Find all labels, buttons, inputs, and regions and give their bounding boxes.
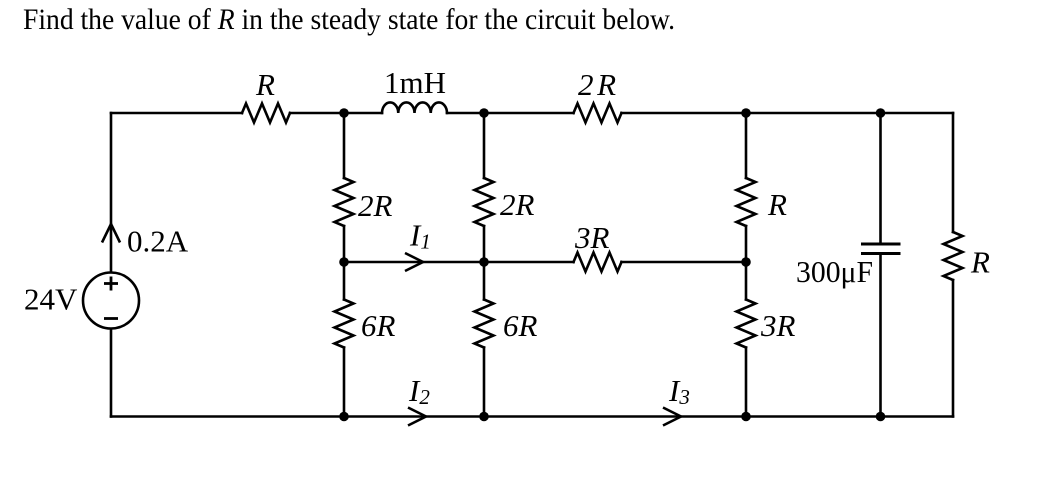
node top capacitor	[876, 108, 886, 118]
svg-text:2R: 2R	[578, 67, 616, 102]
inductor L1 1mH	[382, 102, 447, 113]
voltage source V1 circle	[83, 273, 139, 329]
wire top right	[622, 112, 954, 115]
svg-text:6R: 6R	[361, 308, 396, 343]
resistor 3R (middle)	[574, 253, 622, 272]
node top branch3	[741, 108, 751, 118]
svg-text:300μF: 300μF	[796, 254, 873, 289]
svg-text:6R: 6R	[503, 308, 538, 343]
node bottom branch1	[339, 412, 349, 422]
svg-text:R: R	[255, 67, 275, 102]
arrow I1 head	[405, 253, 423, 271]
svg-text:R: R	[767, 187, 787, 222]
wire right vertical lower	[952, 280, 955, 417]
middle wire left segment	[344, 261, 574, 264]
branch2 wire upper	[483, 113, 486, 178]
wire top between R and node A	[290, 112, 382, 115]
resistor R (right branch)	[944, 232, 963, 280]
wire right vertical upper	[952, 113, 955, 232]
svg-text:0.2A: 0.2A	[127, 224, 189, 259]
branch1 wire lower	[343, 348, 346, 417]
arrow I3 head	[663, 408, 681, 426]
wire top between inductor and 2R	[447, 112, 574, 115]
resistor R (branch3)	[737, 178, 756, 226]
node dots	[339, 108, 885, 421]
middle wire right segment	[622, 261, 747, 264]
node top branch2	[479, 108, 489, 118]
svg-text:R: R	[970, 245, 990, 280]
branch3 wire upper	[745, 113, 748, 178]
svg-text:24V: 24V	[24, 282, 78, 317]
svg-text:Find the value of R in the ste: Find the value of R in the steady state …	[23, 3, 675, 36]
resistor 6R (branch1)	[335, 300, 354, 348]
branch3 wire middle	[745, 226, 748, 300]
arrow 0.2A head	[102, 224, 120, 243]
svg-text:3R: 3R	[574, 220, 610, 255]
resistor 2R (branch2)	[475, 178, 494, 226]
node bottom branch3	[741, 412, 751, 422]
branch2 wire middle	[483, 226, 486, 300]
wire left vertical upper	[110, 113, 113, 273]
branch1 wire upper	[343, 113, 346, 178]
arrow I2 head	[408, 408, 426, 426]
branch2 wire lower	[483, 348, 486, 417]
svg-text:I1: I1	[409, 218, 431, 254]
wire top left horizontal	[111, 112, 242, 115]
resistor 2R (top)	[574, 104, 622, 123]
wire bottom horizontal	[111, 415, 953, 418]
svg-text:1mH: 1mH	[384, 65, 446, 100]
node middle branch1	[339, 257, 349, 267]
node middle branch2	[479, 257, 489, 267]
svg-text:3R: 3R	[760, 308, 796, 343]
node bottom branch2	[479, 412, 489, 422]
svg-text:I3: I3	[668, 373, 690, 409]
branch3 wire lower	[745, 348, 748, 417]
capacitor branch wire upper	[879, 113, 882, 244]
node bottom capacitor	[876, 412, 886, 422]
wire left vertical lower	[110, 328, 113, 417]
voltage source plus sign	[104, 277, 118, 319]
capacitor C1 plates	[861, 244, 901, 254]
svg-text:I2: I2	[408, 373, 430, 409]
svg-text:2R: 2R	[500, 187, 535, 222]
capacitor branch wire lower	[879, 254, 882, 417]
branch1 wire middle	[343, 226, 346, 300]
node top branch1	[339, 108, 349, 118]
resistor 3R (branch3)	[737, 300, 756, 348]
voltage source minus sign	[104, 317, 118, 320]
resistor R (top)	[242, 104, 290, 123]
resistor 2R (branch1)	[335, 178, 354, 226]
node middle branch3	[741, 257, 751, 267]
resistor 6R (branch2)	[475, 300, 494, 348]
svg-text:2R: 2R	[358, 188, 393, 223]
